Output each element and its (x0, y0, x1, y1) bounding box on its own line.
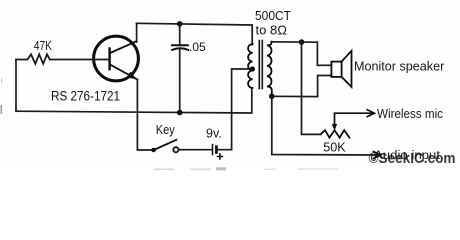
svg-text:Key: Key (156, 123, 176, 137)
transformer T1 secondary winding (267, 42, 272, 97)
svg-text:©SeekIC.com: ©SeekIC.com (369, 151, 456, 167)
potentiometer R2 wiper arrow (332, 113, 372, 130)
wire battery to center tap riser (218, 69, 251, 150)
label Audio input (gray) (374, 150, 441, 162)
svg-text:RS 276-1721: RS 276-1721 (51, 88, 120, 103)
scan speck left edge (1, 105, 3, 114)
svg-text:500CT: 500CT (255, 9, 291, 23)
label Key (156, 123, 176, 137)
label 50K (323, 140, 346, 154)
capacitor C1 lead bottom (179, 49, 181, 112)
transistor Q1 collector (110, 41, 137, 53)
scan speck left edge upper (1, 78, 2, 83)
label 9v. (206, 126, 222, 140)
label 500CT (255, 9, 291, 23)
node top junction (177, 21, 183, 27)
transistor Q1 base bar (108, 49, 110, 70)
svg-text:to 8Ω: to 8Ω (256, 24, 288, 38)
arrow audio head (373, 151, 381, 159)
node center tap (250, 66, 255, 71)
capacitor C1 top plate (172, 44, 188, 46)
node secondary top junction (299, 39, 305, 45)
wire secondary top to speaker (271, 42, 331, 66)
wire bottom bus (16, 88, 252, 113)
capacitor C1 curved plate (172, 48, 188, 50)
battery BT1 short plate (215, 147, 218, 153)
transistor Q1 emitter with arrow (110, 65, 137, 80)
battery BT1 plus sign (217, 154, 222, 159)
label RS 276-1721 (51, 88, 120, 103)
capacitor C1 lead top (179, 24, 181, 44)
switch S1 lever (154, 140, 177, 150)
wire audio output (272, 96, 378, 155)
scan smudge bottom 4 (264, 169, 276, 170)
battery BT1 long plate (212, 145, 214, 155)
wire secondary bottom to speaker (272, 76, 332, 97)
wire left vertical (15, 60, 17, 112)
label Monitor speaker (354, 60, 444, 74)
transformer T1 primary winding (248, 44, 253, 88)
label .05 (189, 40, 206, 54)
scan smudge bottom 5 (298, 168, 338, 170)
transistor Q1 circle (94, 36, 139, 81)
scan smudge bottom 2 (190, 169, 211, 171)
arrow wireless mic head (367, 109, 375, 117)
label 47K (34, 39, 53, 53)
svg-text:9v.: 9v. (206, 126, 222, 140)
speaker LS1 box (331, 62, 341, 77)
svg-text:50K: 50K (323, 140, 346, 154)
label to 8 ohm (256, 24, 288, 38)
switch S1 key pivot (151, 148, 156, 153)
potentiometer R2 50K zigzag (321, 130, 350, 137)
speaker LS1 cone (342, 51, 352, 87)
scan smudge bottom 3 (216, 167, 226, 170)
resistor R1 47K (16, 54, 94, 64)
svg-text:Wireless mic: Wireless mic (377, 106, 443, 121)
svg-text:.05: .05 (189, 40, 206, 54)
transformer T1 core (259, 41, 262, 89)
node secondary bottom junction (269, 94, 275, 100)
switch S1 contact (173, 147, 178, 152)
wire emitter down to key (137, 80, 153, 151)
node bus junction (177, 110, 183, 116)
watermark SeekIC.com (369, 151, 456, 167)
transistor Q1 base lead (94, 59, 110, 61)
scan smudge bottom 1 (154, 169, 174, 171)
wire switch to battery (179, 149, 212, 151)
label Wireless mic (377, 106, 443, 121)
svg-text:Monitor speaker: Monitor speaker (354, 60, 444, 74)
wire top (collector to transformer) (137, 23, 253, 44)
svg-text:47K: 47K (34, 39, 53, 53)
wire pot branch down (302, 42, 321, 134)
wire collector up (136, 23, 138, 42)
